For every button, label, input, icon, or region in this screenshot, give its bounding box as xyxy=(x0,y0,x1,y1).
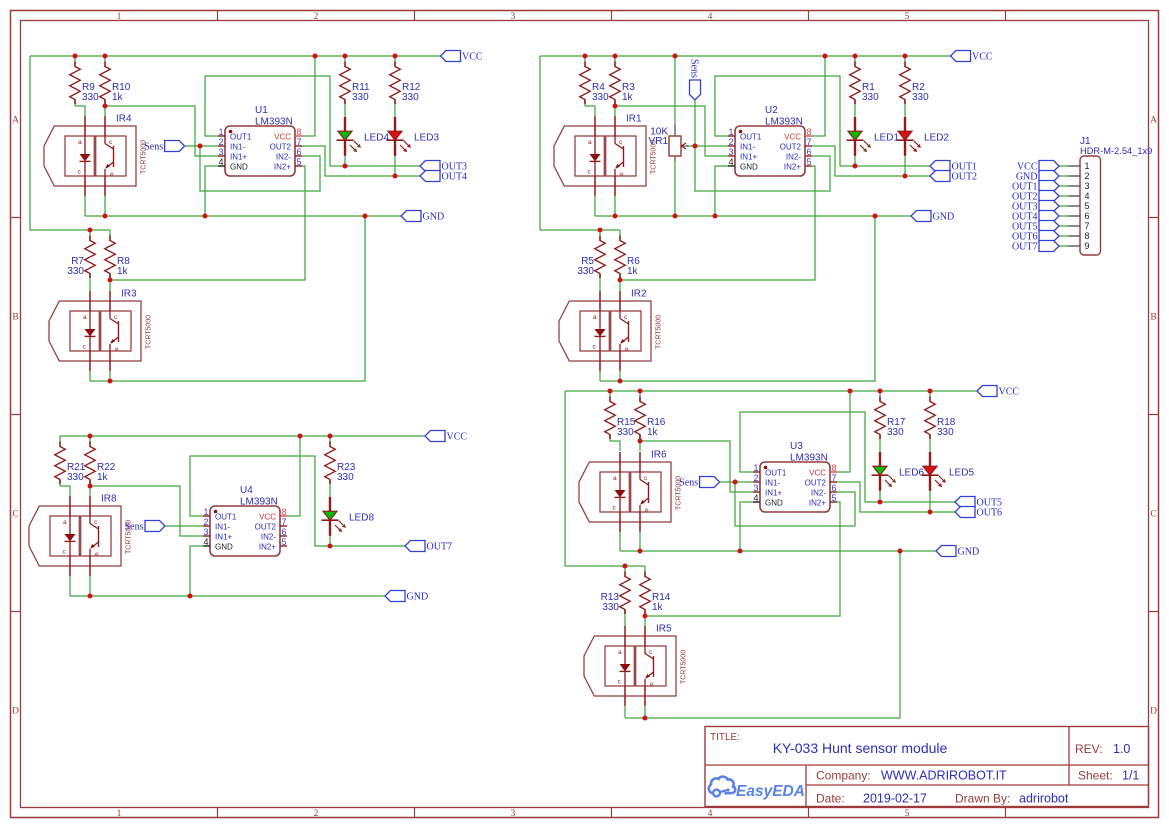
svg-text:330: 330 xyxy=(577,266,594,277)
svg-text:IN1-: IN1- xyxy=(765,479,780,488)
svg-text:HDR-M-2.54_1x9: HDR-M-2.54_1x9 xyxy=(1080,146,1152,156)
svg-text:9: 9 xyxy=(1085,241,1090,251)
svg-text:1k: 1k xyxy=(97,472,109,483)
junction (645,718) xyxy=(643,716,648,721)
svg-text:IN2-: IN2- xyxy=(811,489,826,498)
svg-text:OUT1: OUT1 xyxy=(765,469,787,478)
junction (640,441) xyxy=(638,439,643,444)
wire R5 to IR2 anode xyxy=(599,280,601,291)
svg-text:2019-02-17: 2019-02-17 xyxy=(863,792,927,806)
net flag OUT4 xyxy=(1012,211,1059,223)
svg-text:IN1+: IN1+ xyxy=(230,153,247,162)
LED LED1 (green) xyxy=(847,117,900,156)
wire IR5 emitter down xyxy=(644,706,646,718)
svg-text:IN2-: IN2- xyxy=(786,153,801,162)
wire J1 pin 2 GND xyxy=(1059,175,1069,177)
op-amp comparator U1 LM393N xyxy=(218,105,302,176)
wire R16 to IR6 collector xyxy=(639,441,641,451)
svg-text:IN2+: IN2+ xyxy=(259,543,276,552)
net flag GND xyxy=(1016,171,1059,183)
junction (640,551) xyxy=(638,549,643,554)
wire R4 to IR1 anode xyxy=(585,106,595,116)
net flag GND xyxy=(385,591,428,603)
svg-text:1k: 1k xyxy=(652,602,664,613)
junction (600,230) xyxy=(598,228,603,233)
svg-text:OUT2: OUT2 xyxy=(805,479,827,488)
svg-text:5: 5 xyxy=(297,157,302,167)
svg-text:4: 4 xyxy=(708,12,713,22)
svg-text:a: a xyxy=(618,649,622,656)
resistor R16 1k xyxy=(635,391,666,441)
svg-text:3: 3 xyxy=(218,147,223,157)
svg-text:OUT7: OUT7 xyxy=(427,542,453,553)
wire LED4 to OUT3 xyxy=(344,155,346,167)
junction (90,436) xyxy=(88,434,93,439)
wire R2 to LED2 xyxy=(904,106,906,118)
svg-text:U4: U4 xyxy=(240,485,253,496)
potentiometer VR1 10K xyxy=(649,124,695,161)
svg-text:4: 4 xyxy=(708,809,713,819)
junction (90,486) xyxy=(88,484,93,489)
wire IR1 emitter down xyxy=(614,196,616,216)
svg-text:VCC: VCC xyxy=(999,387,1020,398)
wire R22 to IR8 collector xyxy=(89,486,91,496)
wire LED5 to OUT6 xyxy=(929,490,931,513)
wire J1 pin 3 OUT1 xyxy=(1059,185,1069,187)
wire divider to IN1+ U2 xyxy=(615,106,728,156)
svg-text:2: 2 xyxy=(203,517,208,527)
junction (105,216) xyxy=(103,214,108,219)
svg-text:OUT4: OUT4 xyxy=(442,172,468,183)
junction (645,616) xyxy=(643,614,648,619)
svg-text:6: 6 xyxy=(832,483,837,493)
wire OUT2 U3 to OUT6 xyxy=(837,482,955,512)
svg-text:1: 1 xyxy=(117,12,122,22)
junction (850,391) xyxy=(848,389,853,394)
wire R12 to LED3 xyxy=(394,106,396,118)
junction (620,280) xyxy=(618,278,623,283)
resistor R18 330 xyxy=(925,391,956,441)
wire row D feed xyxy=(565,565,645,567)
wire U3 GND xyxy=(740,502,753,551)
wire J1 pin 1 VCC xyxy=(1059,165,1069,167)
svg-text:IN2+: IN2+ xyxy=(274,163,291,172)
svg-text:330: 330 xyxy=(67,266,84,277)
svg-text:e: e xyxy=(620,171,624,178)
resistor R15 330 xyxy=(605,391,636,441)
svg-text:5: 5 xyxy=(1085,201,1090,211)
wire Sens flag down xyxy=(694,100,696,146)
svg-text:1k: 1k xyxy=(647,427,659,438)
wire LED8 to OUT7 xyxy=(329,535,331,547)
LED LED8 (green) xyxy=(322,497,375,536)
wire left vertical U3 xyxy=(564,391,566,566)
svg-text:3: 3 xyxy=(728,147,733,157)
wire R10 to IR4 collector xyxy=(104,106,106,116)
junction (900,551) xyxy=(898,549,903,554)
svg-text:2: 2 xyxy=(728,137,733,147)
svg-text:2: 2 xyxy=(1085,171,1090,181)
junction (930,512) xyxy=(928,510,933,515)
wire IR2 cathode down xyxy=(599,371,601,381)
wire U1 VCC xyxy=(302,56,315,136)
net flag OUT6 xyxy=(955,507,1002,519)
svg-text:IR2: IR2 xyxy=(631,289,647,300)
junction (615,216) xyxy=(613,214,618,219)
svg-text:330: 330 xyxy=(617,427,634,438)
LED LED3 (red) xyxy=(387,117,440,156)
svg-text:a: a xyxy=(78,139,82,146)
junction (855,166) xyxy=(853,164,858,169)
junction (75,56) xyxy=(73,54,78,59)
wire LED6 to OUT5 xyxy=(879,490,881,503)
wire IR1 cathode down xyxy=(594,196,596,216)
svg-text:IR5: IR5 xyxy=(656,624,672,635)
wire U2 GND xyxy=(715,166,728,216)
svg-text:GND: GND xyxy=(958,547,980,558)
svg-text:e: e xyxy=(110,171,114,178)
svg-text:IR8: IR8 xyxy=(101,494,117,505)
IR sensor IR1 TCRT5000 xyxy=(554,114,658,197)
wire U1 GND xyxy=(205,166,218,216)
svg-text:adrirobot: adrirobot xyxy=(1019,792,1069,806)
svg-text:GND: GND xyxy=(765,499,783,508)
op-amp comparator U4 LM393N xyxy=(203,485,287,556)
svg-text:VCC: VCC xyxy=(274,133,291,142)
wire GND rail xyxy=(85,215,401,217)
junction (625,566) xyxy=(623,564,628,569)
svg-text:IN1+: IN1+ xyxy=(765,489,782,498)
op-amp comparator U3 LM393N xyxy=(753,441,837,512)
wire IR5 cathode down xyxy=(624,706,626,718)
net flag Sens xyxy=(689,59,701,100)
junction (345,166) xyxy=(343,164,348,169)
svg-text:3: 3 xyxy=(753,483,758,493)
wire R9 to IR4 anode xyxy=(75,106,85,116)
svg-text:330: 330 xyxy=(912,92,929,103)
net flag VCC xyxy=(1017,161,1059,173)
svg-text:IR6: IR6 xyxy=(651,450,667,461)
wire Sens to IN1- U4 xyxy=(165,525,203,527)
junction (110,381) xyxy=(108,379,113,384)
net flag OUT5 xyxy=(1012,221,1059,233)
svg-text:330: 330 xyxy=(862,92,879,103)
svg-text:7: 7 xyxy=(1085,221,1090,231)
svg-text:Sens: Sens xyxy=(144,142,163,153)
svg-text:IN2-: IN2- xyxy=(261,533,276,542)
svg-text:LED5: LED5 xyxy=(949,467,974,478)
svg-text:LED6: LED6 xyxy=(899,467,924,478)
wire R3 to IR1 collector xyxy=(614,106,616,116)
wire OUT1 to OUT3 xyxy=(205,76,420,166)
svg-text:330: 330 xyxy=(592,92,609,103)
junction (905,176) xyxy=(903,174,908,179)
wire left vertical right block xyxy=(539,56,541,230)
svg-text:8: 8 xyxy=(297,127,302,137)
resistor R4 330 xyxy=(580,56,609,106)
junction (205,216) xyxy=(203,214,208,219)
svg-text:3: 3 xyxy=(1085,181,1090,191)
net flag VCC xyxy=(425,431,467,443)
junction (200,146) xyxy=(198,144,203,149)
junction (300,436) xyxy=(298,434,303,439)
svg-text:KY-033 Hunt sensor module: KY-033 Hunt sensor module xyxy=(773,740,948,756)
wire VCC rail U4 xyxy=(60,435,425,437)
wire GND rail U3 xyxy=(620,550,936,552)
wire IN2+ U2 to divider2 xyxy=(620,166,815,280)
wire U4 GND xyxy=(190,546,203,596)
junction (105,56) xyxy=(103,54,108,59)
svg-text:IN1-: IN1- xyxy=(230,143,245,152)
svg-text:330: 330 xyxy=(67,472,84,483)
svg-text:e: e xyxy=(645,507,649,514)
wire IR3 emitter down xyxy=(109,371,111,381)
junction (675,56) xyxy=(673,54,678,59)
wire R1 to LED1 xyxy=(854,106,856,118)
wire Sens to IN1- U2 xyxy=(695,145,728,147)
LED LED5 (red) xyxy=(922,452,975,491)
svg-text:IR4: IR4 xyxy=(116,114,132,125)
wire R13 to IR5 anode xyxy=(624,616,626,626)
svg-text:1k: 1k xyxy=(117,266,129,277)
svg-text:VCC: VCC xyxy=(784,133,801,142)
IR sensor IR4 TCRT5000 xyxy=(44,114,148,197)
svg-text:OUT1: OUT1 xyxy=(740,133,762,142)
junction (330,436) xyxy=(328,434,333,439)
svg-text:TCRT5000: TCRT5000 xyxy=(656,315,663,349)
resistor R2 330 xyxy=(900,56,929,106)
svg-text:WWW.ADRIROBOT.IT: WWW.ADRIROBOT.IT xyxy=(881,769,1007,783)
svg-text:Sens: Sens xyxy=(689,59,700,78)
wire Sens to IN2- xyxy=(200,146,320,191)
svg-text:330: 330 xyxy=(82,92,99,103)
svg-text:Sens: Sens xyxy=(125,522,144,533)
svg-text:LED4: LED4 xyxy=(364,132,389,143)
net flag GND xyxy=(911,211,954,223)
wire GND rail right xyxy=(595,215,911,217)
LED LED6 (green) xyxy=(872,452,925,491)
wire divider to IN1+ U3 xyxy=(640,441,753,492)
svg-text:IN1-: IN1- xyxy=(740,143,755,152)
svg-text:TCRT5000: TCRT5000 xyxy=(146,315,153,349)
wire GND to IR5 return xyxy=(625,551,900,718)
svg-text:OUT2: OUT2 xyxy=(270,143,292,152)
svg-text:IN2+: IN2+ xyxy=(809,499,826,508)
resistor R12 330 xyxy=(390,56,421,106)
junction (640,391) xyxy=(638,389,643,394)
wire R14 to IR5 collector xyxy=(644,616,646,626)
svg-text:3: 3 xyxy=(511,809,516,819)
wire VCC rail right xyxy=(540,55,951,57)
net flag OUT2 xyxy=(930,171,977,183)
svg-text:e: e xyxy=(115,346,119,353)
junction (315,56) xyxy=(313,54,318,59)
resistor R10 1k xyxy=(100,56,131,106)
svg-text:Date:: Date: xyxy=(816,792,845,806)
svg-text:GND: GND xyxy=(215,543,233,552)
net flag OUT7 xyxy=(1012,241,1059,253)
svg-text:VCC: VCC xyxy=(809,469,826,478)
svg-text:U1: U1 xyxy=(255,105,268,116)
op-amp comparator U2 LM393N xyxy=(728,105,812,176)
wire IR3 cathode down xyxy=(89,371,91,381)
IR sensor IR5 TCRT5000 xyxy=(584,624,688,707)
junction (875,216) xyxy=(873,214,878,219)
wire IR2 emitter down xyxy=(619,371,621,381)
wire Sens to IN2- U2 xyxy=(695,146,830,191)
svg-text:D: D xyxy=(12,707,19,717)
net flag OUT1 xyxy=(930,161,977,173)
svg-text:Sens: Sens xyxy=(679,478,698,489)
svg-text:VCC: VCC xyxy=(447,432,468,443)
wire R11 to LED4 xyxy=(344,106,346,118)
svg-text:a: a xyxy=(588,139,592,146)
resistor R21 330 xyxy=(55,436,86,486)
svg-text:OUT7: OUT7 xyxy=(1012,242,1038,253)
net flag Sens xyxy=(144,141,184,153)
svg-text:330: 330 xyxy=(602,602,619,613)
svg-text:Company:: Company: xyxy=(816,769,871,783)
junction (190,596) xyxy=(188,594,193,599)
wire R8 to IR3 collector xyxy=(109,280,111,291)
svg-text:1: 1 xyxy=(728,127,733,137)
wire J1 pin 4 OUT2 xyxy=(1059,195,1069,197)
junction (880,391) xyxy=(878,389,883,394)
wire OUT1 U4 to OUT7 xyxy=(190,456,405,546)
EasyEDA logo xyxy=(709,777,805,800)
svg-text:B: B xyxy=(12,313,18,323)
svg-text:IN1-: IN1- xyxy=(215,523,230,532)
wire R18 to LED5 xyxy=(929,441,931,453)
junction (615,106) xyxy=(613,104,618,109)
wire R7 to IR3 anode xyxy=(89,280,91,291)
wire J1 pin 5 OUT3 xyxy=(1059,205,1069,207)
junction (395,56) xyxy=(393,54,398,59)
wire LED1 to OUT1 xyxy=(854,155,856,167)
svg-text:U3: U3 xyxy=(790,441,803,452)
svg-text:330: 330 xyxy=(887,427,904,438)
svg-text:8: 8 xyxy=(282,507,287,517)
wire left vertical xyxy=(29,56,31,230)
svg-text:EasyEDA: EasyEDA xyxy=(736,783,805,800)
svg-text:D: D xyxy=(1150,707,1157,717)
title block xyxy=(705,727,1149,807)
resistor R9 330 xyxy=(70,56,99,106)
resistor R17 330 xyxy=(875,391,906,441)
svg-text:3: 3 xyxy=(203,527,208,537)
svg-text:5: 5 xyxy=(905,809,910,819)
wire Sens to IN1- U3 xyxy=(720,481,753,483)
wire row B feed xyxy=(30,229,110,231)
svg-text:5: 5 xyxy=(282,537,287,547)
wire R21 to IR8 anode xyxy=(60,486,70,496)
svg-text:6: 6 xyxy=(297,147,302,157)
wire IR4 emitter down xyxy=(104,196,106,216)
wire J1 pin 6 OUT4 xyxy=(1059,215,1069,217)
net flag VCC xyxy=(441,51,483,63)
svg-text:A: A xyxy=(1150,116,1157,126)
svg-text:a: a xyxy=(593,314,597,321)
net flag OUT5 xyxy=(955,497,1002,509)
wire Sens to IN2- U3 xyxy=(735,482,855,526)
svg-text:a: a xyxy=(613,475,617,482)
svg-text:a: a xyxy=(83,314,87,321)
wire GND to IR3 return xyxy=(90,216,365,381)
svg-text:4: 4 xyxy=(203,537,208,547)
svg-text:330: 330 xyxy=(337,472,354,483)
svg-text:OUT6: OUT6 xyxy=(977,508,1003,519)
IR sensor IR2 TCRT5000 xyxy=(559,289,663,372)
junction (90,230) xyxy=(88,228,93,233)
svg-text:2: 2 xyxy=(218,137,223,147)
svg-text:VCC: VCC xyxy=(259,513,276,522)
svg-text:4: 4 xyxy=(218,157,223,167)
svg-text:Sheet:: Sheet: xyxy=(1078,769,1113,783)
wire IN2+ U3 to divider2 xyxy=(645,502,840,616)
net flag GND xyxy=(401,211,444,223)
resistor R23 330 xyxy=(325,436,356,486)
svg-text:VCC: VCC xyxy=(462,52,483,63)
wire VR1 bottom to GND xyxy=(674,161,676,216)
junction (615,56) xyxy=(613,54,618,59)
svg-text:1k: 1k xyxy=(627,266,639,277)
junction (715,216) xyxy=(713,214,718,219)
resistor R8 1k xyxy=(105,230,131,280)
junction (695,146) xyxy=(693,144,698,149)
junction (105,106) xyxy=(103,104,108,109)
junction (610,391) xyxy=(608,389,613,394)
svg-text:VCC: VCC xyxy=(972,52,993,63)
svg-text:4: 4 xyxy=(728,157,733,167)
net flag OUT7 xyxy=(405,541,452,553)
resistor R11 330 xyxy=(340,56,370,106)
svg-text:OUT2: OUT2 xyxy=(952,172,978,183)
wire VR1 top to VCC xyxy=(674,56,676,124)
resistor R5 330 xyxy=(577,230,605,280)
svg-text:4: 4 xyxy=(1085,191,1090,201)
svg-text:1: 1 xyxy=(203,507,208,517)
svg-text:TITLE:: TITLE: xyxy=(710,732,740,743)
svg-text:C: C xyxy=(1150,510,1156,520)
LED LED2 (red) xyxy=(897,117,950,156)
svg-text:1: 1 xyxy=(117,809,122,819)
junction (675,216) xyxy=(673,214,678,219)
junction (345,56) xyxy=(343,54,348,59)
svg-text:GND: GND xyxy=(933,212,955,223)
wire Sens to IN1- xyxy=(185,145,218,147)
svg-text:IR1: IR1 xyxy=(626,114,642,125)
svg-text:7: 7 xyxy=(297,137,302,147)
resistor R14 1k xyxy=(640,566,671,616)
wire R15 to IR6 anode xyxy=(610,441,620,451)
svg-text:6: 6 xyxy=(807,147,812,157)
LED LED4 (green) xyxy=(337,117,390,156)
junction (905,56) xyxy=(903,54,908,59)
svg-text:5: 5 xyxy=(905,12,910,22)
junction (930,391) xyxy=(928,389,933,394)
wire U4 VCC xyxy=(287,436,300,516)
svg-text:e: e xyxy=(650,681,654,688)
svg-text:6: 6 xyxy=(282,527,287,537)
svg-text:A: A xyxy=(12,116,19,126)
junction (880,502) xyxy=(878,500,883,505)
svg-text:8: 8 xyxy=(1085,231,1090,241)
net flag OUT4 xyxy=(420,171,467,183)
svg-text:LED2: LED2 xyxy=(924,132,949,143)
svg-text:2: 2 xyxy=(314,809,319,819)
svg-text:330: 330 xyxy=(402,92,419,103)
wire IR6 emitter down xyxy=(639,532,641,551)
